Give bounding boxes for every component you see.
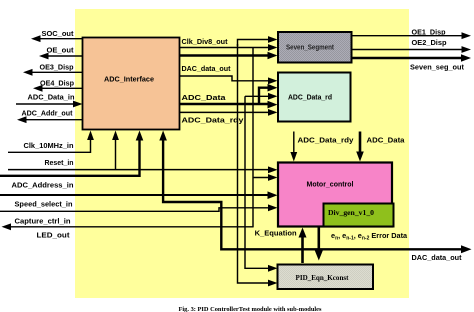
block Motor_control — [278, 163, 392, 227]
wire Clk_10MHz_in — [8, 135, 91, 152]
wire K_Equation up arrow (thick) — [301, 233, 304, 263]
svg-text:en, en-1, en-2 Error Data: en, en-1, en-2 Error Data — [331, 231, 408, 242]
wire Reset_in branch up into ADC_Interface — [115, 135, 117, 170]
wire DAC_data_out to ADC_Data_rd — [180, 76, 273, 81]
block Div_gen_v1_0 — [324, 204, 394, 227]
wire reset branch to ADC_Data_rd row3 — [245, 95, 273, 97]
svg-text:OE2_Disp: OE2_Disp — [412, 38, 447, 47]
svg-text:ADC_Interface: ADC_Interface — [104, 74, 154, 83]
svg-text:OE1_Disp: OE1_Disp — [412, 27, 446, 36]
svg-text:Clk_10MHz_in: Clk_10MHz_in — [24, 141, 74, 150]
wire ADC_Data branch up to ADC_Data_rd (thick) — [259, 88, 272, 104]
wire Seven_seg_out (thick) — [352, 57, 465, 59]
wire ADC_Address_in — [0, 136, 140, 176]
svg-text:ADC_Data_in: ADC_Data_in — [28, 93, 75, 102]
svg-text:DAC_data_out: DAC_data_out — [182, 64, 231, 73]
wire clk distribution vertical V1 — [238, 44, 274, 283]
wire OE4_Disp — [38, 87, 83, 89]
svg-text:ADC_Data_rd: ADC_Data_rd — [288, 93, 332, 102]
svg-text:Seven_Segment: Seven_Segment — [286, 43, 334, 52]
wire ADC_Data_rdy down arrow into Motor_control top — [293, 132, 295, 157]
wire bus ADC to Seven_Segment (thick) — [180, 54, 272, 56]
svg-text:ADC_Addr_out: ADC_Addr_out — [22, 109, 73, 118]
svg-text:Speed_select_in: Speed_select_in — [15, 199, 73, 208]
svg-text:Clk_Div8_out: Clk_Div8_out — [182, 37, 228, 46]
svg-text:Div_gen_v1_0: Div_gen_v1_0 — [328, 208, 374, 217]
wire Clk_Div8_out to Seven_Segment — [180, 47, 273, 49]
wire Speed_select_in — [0, 194, 272, 196]
svg-text:Motor_control: Motor_control — [307, 179, 354, 188]
wire ADC_Data down arrow into Motor_control top (thick) — [359, 132, 362, 156]
wire OE3_Disp — [28, 71, 83, 73]
block ADC_Interface — [83, 38, 180, 130]
svg-text:LED_out: LED_out — [37, 230, 70, 239]
background panel (yellow) — [75, 9, 409, 298]
wire OE2_Disp — [352, 49, 466, 51]
svg-text:K_Equation: K_Equation — [255, 229, 297, 238]
wire LED_out — [6, 226, 254, 228]
svg-text:ADC_Data: ADC_Data — [182, 93, 227, 102]
wire ADC_Addr_out — [22, 119, 83, 121]
svg-text:PID_Eqn_Kconst: PID_Eqn_Kconst — [296, 273, 349, 282]
svg-text:Capture_ctrl_in: Capture_ctrl_in — [15, 216, 71, 225]
wire OE1_Disp — [352, 35, 466, 37]
block Seven_Segment — [278, 32, 352, 63]
svg-text:ADC_Address_in: ADC_Address_in — [12, 180, 74, 189]
wire clk branch to Seven_Segment row1 — [238, 40, 274, 47]
svg-text:ADC_Data: ADC_Data — [367, 135, 406, 144]
wire ADC_Data (thick) — [180, 103, 272, 105]
svg-text:DAC_data_out: DAC_data_out — [412, 253, 462, 262]
svg-text:SOC_out: SOC_out — [42, 29, 74, 38]
svg-text:Seven_seg_out: Seven_seg_out — [410, 62, 464, 71]
wire DAC route from ADC_Interface bottom (thick) — [163, 136, 466, 249]
wire error data down arrow (thick) — [317, 227, 320, 255]
block ADC_Data_rd — [278, 73, 351, 122]
wire DAC_data_out exit arrow — [461, 245, 472, 253]
wire ADC_Data_in — [16, 103, 78, 105]
svg-text:OE3_Disp: OE3_Disp — [40, 63, 74, 72]
wire clk vertical V2 to Motor_control and LED — [252, 48, 254, 227]
wire ADC_Data_rdy to ADC_Data_rd — [180, 111, 273, 113]
svg-text:OE4_Disp: OE4_Disp — [40, 79, 74, 88]
wire Reset_in — [8, 169, 273, 171]
wire clk branch to Motor_control row2 — [253, 177, 273, 179]
svg-text:Fig. 3: PID ControllerTest mod: Fig. 3: PID ControllerTest module with s… — [179, 306, 323, 312]
svg-text:OE_out: OE_out — [47, 46, 74, 55]
wire OE_out — [44, 55, 83, 57]
svg-text:Reset_in: Reset_in — [45, 158, 74, 167]
svg-text:ADC_Data_rdy: ADC_Data_rdy — [182, 115, 245, 124]
wire SOC_out — [36, 38, 83, 40]
wire reset distribution vertical — [245, 96, 273, 268]
block PID_Eqn_Kconst — [278, 265, 374, 290]
svg-text:ADC_Data_rdy: ADC_Data_rdy — [298, 135, 355, 144]
wire Capture_ctrl_in — [0, 208, 273, 212]
